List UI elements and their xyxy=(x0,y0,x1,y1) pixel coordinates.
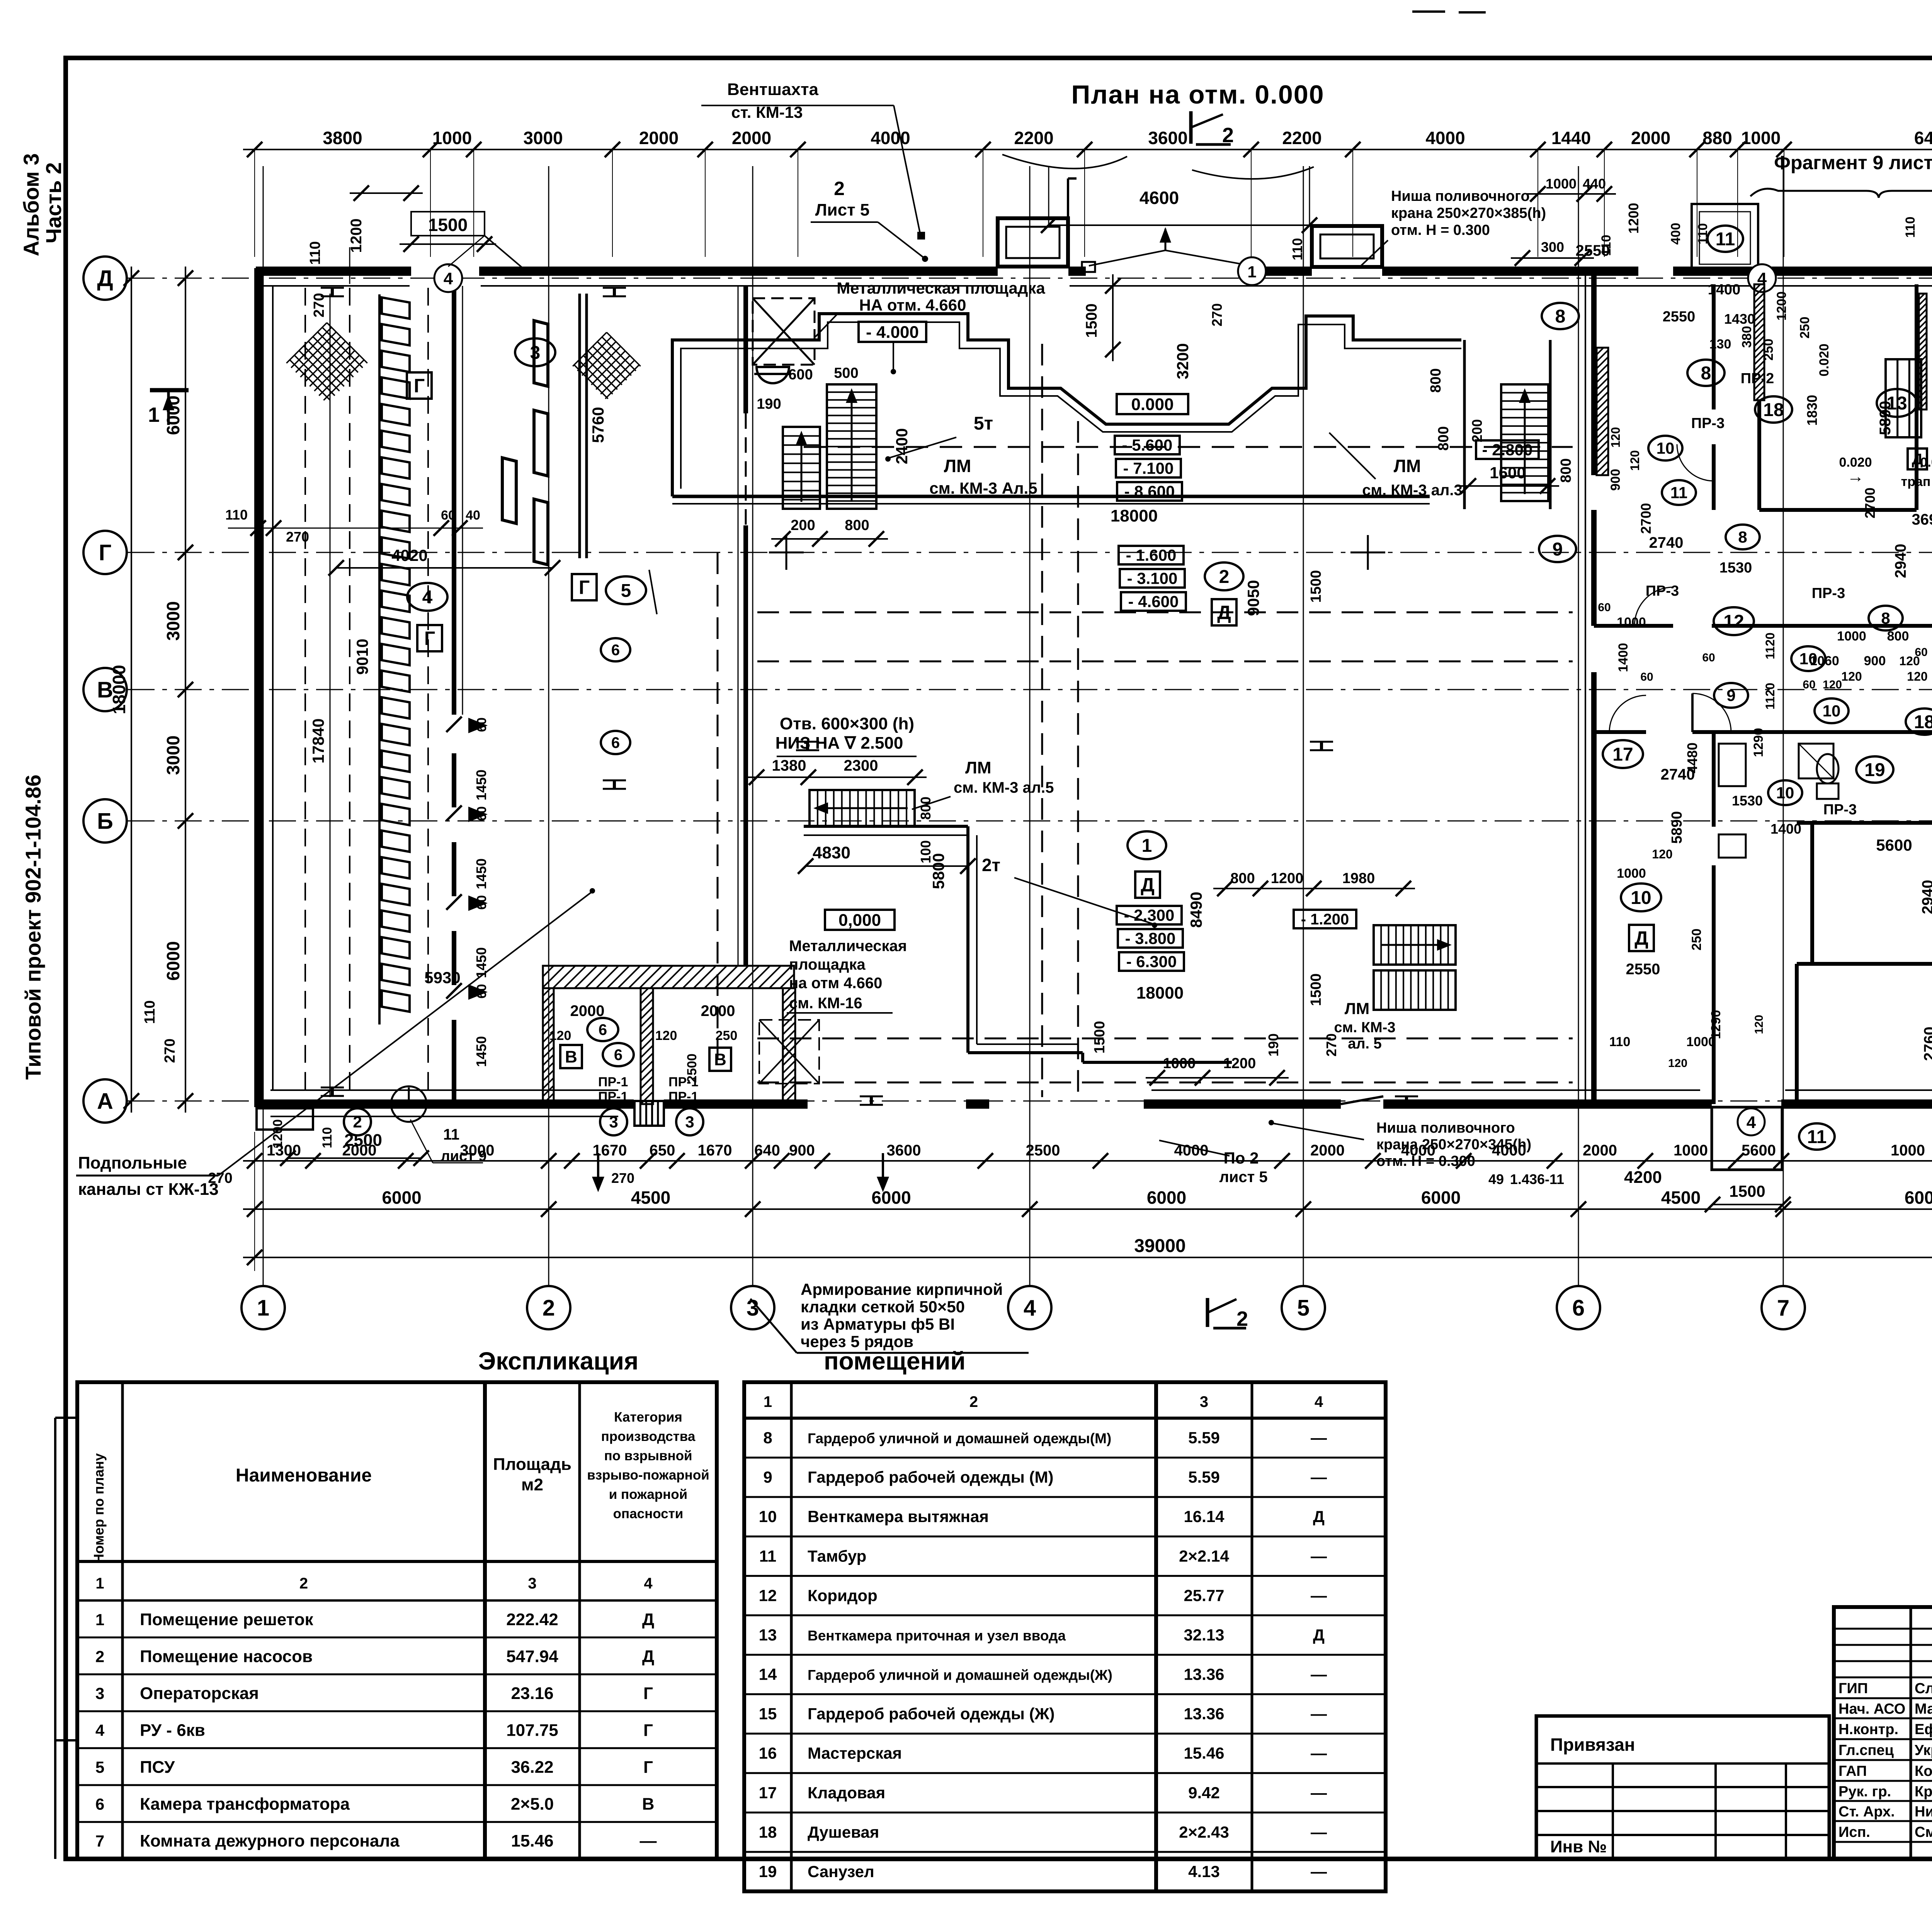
svg-text:49: 49 xyxy=(1488,1171,1504,1187)
svg-text:Наименование: Наименование xyxy=(236,1465,372,1486)
svg-text:Экспликация: Экспликация xyxy=(478,1347,639,1375)
svg-text:Слегин: Слегин xyxy=(1915,1680,1932,1697)
svg-text:200: 200 xyxy=(1469,419,1485,442)
svg-text:2500: 2500 xyxy=(344,1131,382,1150)
svg-text:1: 1 xyxy=(1142,836,1152,856)
svg-text:6000: 6000 xyxy=(163,941,183,980)
transformer chamber walls hatched xyxy=(543,966,794,988)
svg-text:110: 110 xyxy=(1289,238,1305,260)
top local dims 1500 opening xyxy=(411,212,485,236)
svg-text:8: 8 xyxy=(1881,609,1890,627)
bottom-right stair xyxy=(1374,925,1456,965)
svg-text:5.59: 5.59 xyxy=(1188,1468,1220,1486)
svg-text:1000: 1000 xyxy=(1617,866,1646,881)
svg-text:120: 120 xyxy=(1628,450,1642,471)
svg-text:3000: 3000 xyxy=(163,736,183,775)
svg-text:1000: 1000 xyxy=(432,128,472,148)
right block main vertical wall axis6 xyxy=(1591,271,1597,475)
svg-text:1060: 1060 xyxy=(1810,654,1839,668)
svg-text:3: 3 xyxy=(685,1113,694,1131)
svg-text:110: 110 xyxy=(1609,1035,1631,1049)
svg-text:2000: 2000 xyxy=(1310,1142,1345,1159)
svg-text:60: 60 xyxy=(1598,601,1611,614)
svg-text:1450: 1450 xyxy=(473,770,489,800)
svg-text:1: 1 xyxy=(764,1393,772,1410)
svg-text:Д: Д xyxy=(1634,928,1648,949)
svg-text:300: 300 xyxy=(1541,239,1564,255)
svg-text:Помещение решеток: Помещение решеток xyxy=(140,1610,314,1629)
svg-text:250: 250 xyxy=(716,1028,738,1043)
svg-text:отм. Н = 0.300: отм. Н = 0.300 xyxy=(1376,1153,1475,1169)
svg-text:ПР-1: ПР-1 xyxy=(598,1075,628,1089)
svg-text:см. КМ-16: см. КМ-16 xyxy=(789,995,862,1012)
svg-text:18: 18 xyxy=(759,1823,777,1841)
svg-text:16.14: 16.14 xyxy=(1184,1507,1225,1526)
lower pit walls xyxy=(966,826,969,1053)
svg-text:10: 10 xyxy=(1656,439,1675,457)
svg-text:270: 270 xyxy=(286,529,309,545)
svg-text:39000: 39000 xyxy=(1134,1236,1185,1256)
svg-text:- 6.300: - 6.300 xyxy=(1126,953,1177,971)
svg-text:Тамбур: Тамбур xyxy=(808,1547,866,1565)
svg-text:1980: 1980 xyxy=(1342,870,1375,887)
lower platform X square xyxy=(759,1020,819,1084)
level -4.000 xyxy=(859,322,926,342)
section mark 2 top xyxy=(1189,111,1193,144)
svg-text:9010: 9010 xyxy=(353,639,371,674)
svg-text:270: 270 xyxy=(162,1038,178,1063)
svg-text:4020: 4020 xyxy=(391,546,427,564)
svg-text:900: 900 xyxy=(789,1142,815,1159)
svg-text:800: 800 xyxy=(918,797,934,820)
svg-text:—: — xyxy=(1311,1429,1327,1447)
svg-text:Армирование кирпичной: Армирование кирпичной xyxy=(801,1280,1003,1298)
svg-text:120: 120 xyxy=(1907,669,1927,683)
svg-text:110: 110 xyxy=(320,1127,335,1148)
svg-text:1500: 1500 xyxy=(1729,1182,1765,1200)
exterior wall left xyxy=(254,268,264,1107)
svg-text:1400: 1400 xyxy=(1708,282,1741,298)
svg-text:250: 250 xyxy=(1798,317,1812,339)
svg-text:1530: 1530 xyxy=(1719,560,1752,576)
svg-text:План на отм. 0.000: План на отм. 0.000 xyxy=(1071,80,1324,109)
exterior wall top xyxy=(256,267,411,276)
svg-text:Г: Г xyxy=(579,577,590,598)
svg-text:2700: 2700 xyxy=(1638,503,1654,534)
svg-text:2500: 2500 xyxy=(1026,1142,1060,1159)
svg-text:Камера трансформатора: Камера трансформатора xyxy=(140,1795,350,1814)
svg-text:3600: 3600 xyxy=(1148,128,1187,148)
svg-text:Исп.: Исп. xyxy=(1838,1824,1870,1840)
svg-text:11: 11 xyxy=(1670,484,1687,502)
svg-text:800: 800 xyxy=(845,517,869,533)
svg-text:2940: 2940 xyxy=(1919,880,1932,914)
svg-text:5890: 5890 xyxy=(1669,811,1685,844)
svg-text:Металлическая площадка: Металлическая площадка xyxy=(837,279,1045,297)
svg-text:4000: 4000 xyxy=(1425,128,1465,148)
svg-text:15.46: 15.46 xyxy=(1184,1744,1224,1762)
svg-text:18: 18 xyxy=(1763,400,1784,420)
svg-text:м2: м2 xyxy=(521,1475,543,1494)
crosshatch patches xyxy=(286,323,367,403)
wc fixtures rooms 18/19 xyxy=(1719,744,1746,786)
svg-text:190: 190 xyxy=(1265,1033,1281,1057)
svg-text:Д: Д xyxy=(97,266,113,291)
main stair upper xyxy=(827,384,876,509)
svg-text:120: 120 xyxy=(1652,847,1672,861)
svg-text:800: 800 xyxy=(1230,870,1255,887)
svg-text:Альбом 3: Альбом 3 xyxy=(19,153,43,257)
svg-text:3000: 3000 xyxy=(523,128,563,148)
svg-text:- 1.200: - 1.200 xyxy=(1301,911,1349,928)
svg-text:ПР-1: ПР-1 xyxy=(668,1075,698,1089)
svg-text:Помещение насосов: Помещение насосов xyxy=(140,1647,313,1666)
room labels left block xyxy=(515,338,555,366)
svg-text:—: — xyxy=(640,1831,657,1850)
svg-text:6: 6 xyxy=(95,1795,104,1813)
svg-text:1500: 1500 xyxy=(428,215,468,235)
svg-text:1200: 1200 xyxy=(1271,870,1304,887)
svg-text:270: 270 xyxy=(1209,303,1225,326)
svg-text:5890: 5890 xyxy=(1877,401,1894,435)
svg-text:120: 120 xyxy=(655,1028,677,1043)
bracket left of table xyxy=(54,1418,56,1859)
svg-text:7: 7 xyxy=(95,1832,104,1850)
svg-text:11: 11 xyxy=(759,1547,776,1565)
svg-text:380: 380 xyxy=(1740,326,1754,348)
svg-text:Лист 5: Лист 5 xyxy=(815,200,870,219)
svg-text:ПР-2: ПР-2 xyxy=(1741,370,1774,387)
svg-text:—: — xyxy=(1311,1862,1327,1881)
svg-text:800: 800 xyxy=(1428,368,1444,392)
svg-text:107.75: 107.75 xyxy=(506,1721,558,1740)
svg-text:Венткамера приточная и узел вв: Венткамера приточная и узел ввода xyxy=(808,1628,1066,1643)
svg-text:60: 60 xyxy=(1640,671,1653,683)
svg-text:18000: 18000 xyxy=(1136,984,1184,1002)
title block signature table xyxy=(1834,1607,1932,1859)
svg-text:900: 900 xyxy=(1608,469,1623,491)
svg-text:2000: 2000 xyxy=(639,128,679,148)
circled 6 marks on wall xyxy=(601,638,630,661)
svg-text:4600: 4600 xyxy=(1139,188,1179,208)
svg-text:60: 60 xyxy=(441,508,456,523)
pit outline upper xyxy=(672,314,1461,496)
svg-text:- 2.800: - 2.800 xyxy=(1482,441,1533,459)
svg-text:Категория: Категория xyxy=(614,1410,682,1425)
door arcs right block xyxy=(1634,587,1673,626)
svg-text:2740: 2740 xyxy=(1649,534,1684,551)
svg-text:3800: 3800 xyxy=(323,128,362,148)
svg-text:4500: 4500 xyxy=(631,1188,670,1208)
svg-text:2000: 2000 xyxy=(1631,128,1670,148)
level boxes center xyxy=(1117,394,1188,414)
svg-text:190: 190 xyxy=(757,396,781,412)
svg-text:Г: Г xyxy=(643,1758,653,1777)
dashed lower pit lines xyxy=(757,1038,1573,1040)
svg-text:110: 110 xyxy=(225,507,248,523)
svg-text:5800: 5800 xyxy=(929,853,947,889)
explication table 2 xyxy=(744,1382,1386,1891)
svg-text:12: 12 xyxy=(759,1586,777,1604)
svg-text:по взрывной: по взрывной xyxy=(604,1448,692,1463)
svg-text:Инв №: Инв № xyxy=(1550,1837,1607,1856)
svg-text:1: 1 xyxy=(148,403,160,426)
svg-text:помещений: помещений xyxy=(824,1347,966,1375)
left arrow mark 1 xyxy=(150,388,189,392)
svg-text:2200: 2200 xyxy=(1014,128,1053,148)
svg-text:4: 4 xyxy=(1747,1113,1756,1132)
svg-text:—: — xyxy=(1311,1665,1327,1684)
svg-text:9: 9 xyxy=(1726,686,1735,705)
svg-text:1120: 1120 xyxy=(1763,632,1777,659)
svg-text:1290: 1290 xyxy=(1709,1010,1723,1039)
svg-text:1200: 1200 xyxy=(1774,291,1789,321)
svg-text:Гардероб уличной и домашней од: Гардероб уличной и домашней одежды(М) xyxy=(808,1431,1111,1446)
svg-text:Номер по плану: Номер по плану xyxy=(91,1453,107,1564)
vertical axis lines 1-8 xyxy=(263,166,264,1286)
svg-text:Г: Г xyxy=(643,1684,653,1703)
svg-text:1000: 1000 xyxy=(1617,615,1646,630)
room partitions right xyxy=(1797,821,1932,825)
svg-text:ПР-3: ПР-3 xyxy=(1691,415,1725,432)
svg-text:2: 2 xyxy=(1219,567,1230,587)
svg-text:640: 640 xyxy=(754,1142,780,1159)
svg-text:Привязан: Привязан xyxy=(1550,1735,1635,1755)
svg-text:10: 10 xyxy=(1776,784,1794,802)
svg-text:и пожарной: и пожарной xyxy=(609,1487,687,1502)
svg-text:2200: 2200 xyxy=(1282,128,1321,148)
svg-text:1450: 1450 xyxy=(473,858,489,889)
svg-text:9.42: 9.42 xyxy=(1188,1784,1220,1802)
svg-text:4.13: 4.13 xyxy=(1188,1862,1220,1881)
svg-text:ГАП: ГАП xyxy=(1838,1763,1867,1779)
svg-text:5: 5 xyxy=(621,581,631,601)
svg-text:Укропова: Укропова xyxy=(1915,1742,1932,1758)
right block partition x4435 xyxy=(1712,284,1716,409)
svg-text:ПР-3: ПР-3 xyxy=(1823,802,1857,818)
svg-text:6000: 6000 xyxy=(382,1188,421,1208)
svg-text:10: 10 xyxy=(1631,888,1651,908)
niche rect top right with mark 11 xyxy=(1692,204,1758,272)
svg-text:1000: 1000 xyxy=(1673,1142,1708,1159)
svg-text:Мастерская: Мастерская xyxy=(808,1744,902,1762)
down arrows doors xyxy=(597,1153,599,1188)
svg-text:0,000: 0,000 xyxy=(838,911,881,929)
svg-text:1000: 1000 xyxy=(1741,128,1781,148)
svg-text:ПР-1: ПР-1 xyxy=(668,1089,698,1104)
svg-text:2: 2 xyxy=(543,1295,555,1320)
svg-text:8: 8 xyxy=(763,1429,772,1447)
svg-text:Костин: Костин xyxy=(1915,1763,1932,1779)
svg-text:1400: 1400 xyxy=(1770,821,1801,837)
svg-text:200: 200 xyxy=(791,517,815,533)
svg-text:600: 600 xyxy=(788,367,813,383)
svg-text:1: 1 xyxy=(257,1295,269,1320)
svg-text:11: 11 xyxy=(1807,1127,1827,1147)
svg-text:Коридор: Коридор xyxy=(808,1586,878,1604)
svg-text:6000: 6000 xyxy=(1905,1188,1932,1208)
svg-text:Венткамера вытяжная: Венткамера вытяжная xyxy=(808,1507,989,1526)
dashed pit lines xyxy=(757,612,1573,613)
corridor walls xyxy=(1594,624,1673,628)
svg-text:1120: 1120 xyxy=(1763,683,1777,709)
svg-text:3: 3 xyxy=(609,1113,618,1131)
svg-text:10: 10 xyxy=(1823,702,1841,720)
svg-text:2: 2 xyxy=(353,1113,362,1131)
svg-text:2×2.14: 2×2.14 xyxy=(1179,1547,1229,1565)
svg-text:6: 6 xyxy=(1572,1295,1585,1320)
svg-text:18000: 18000 xyxy=(109,665,129,714)
upper right partitions xyxy=(1759,508,1917,512)
left block dashed lines xyxy=(304,288,306,1097)
svg-text:Часть 2: Часть 2 xyxy=(41,162,66,243)
svg-text:2550: 2550 xyxy=(1576,242,1610,259)
svg-text:5: 5 xyxy=(95,1758,104,1776)
svg-text:ЛМ: ЛМ xyxy=(1345,999,1369,1018)
svg-text:→: → xyxy=(1847,467,1864,486)
dims 800 1200 1980 xyxy=(1213,888,1415,889)
room 4 label xyxy=(407,583,447,611)
svg-text:110: 110 xyxy=(307,241,323,265)
svg-text:В: В xyxy=(714,1050,726,1069)
svg-text:5760: 5760 xyxy=(589,407,607,443)
svg-text:Площадь: Площадь xyxy=(493,1455,571,1474)
svg-text:1400: 1400 xyxy=(1616,643,1631,672)
svg-text:19: 19 xyxy=(1864,760,1885,780)
svg-text:Д: Д xyxy=(1912,451,1923,468)
svg-text:270: 270 xyxy=(611,1170,634,1186)
lower platform 0.000 box xyxy=(825,910,895,930)
svg-text:Ниша поливочного: Ниша поливочного xyxy=(1391,188,1530,204)
svg-text:1670: 1670 xyxy=(698,1142,732,1159)
svg-text:2: 2 xyxy=(299,1575,308,1592)
svg-text:36.22: 36.22 xyxy=(511,1758,553,1777)
svg-text:4: 4 xyxy=(422,587,433,608)
svg-text:6000: 6000 xyxy=(1421,1188,1461,1208)
svg-text:- 7.100: - 7.100 xyxy=(1123,459,1174,477)
svg-text:2000: 2000 xyxy=(1583,1142,1617,1159)
svg-text:6000: 6000 xyxy=(1147,1188,1186,1208)
svg-text:Г: Г xyxy=(414,375,425,397)
svg-text:кладки сеткой 50×50: кладки сеткой 50×50 xyxy=(801,1298,965,1316)
svg-text:4: 4 xyxy=(644,1575,653,1592)
svg-text:Фрагмент 9 лист 4: Фрагмент 9 лист 4 xyxy=(1774,152,1932,173)
svg-text:3: 3 xyxy=(1200,1393,1208,1410)
svg-text:- 4.000: - 4.000 xyxy=(866,323,919,341)
svg-text:см. КМ-3 ал.3: см. КМ-3 ал.3 xyxy=(1362,482,1463,499)
svg-text:опасности: опасности xyxy=(613,1506,684,1521)
svg-text:40: 40 xyxy=(466,508,480,523)
svg-text:Гл.спец: Гл.спец xyxy=(1838,1742,1894,1758)
door circles 3 xyxy=(600,1108,627,1135)
axis3 interior wall xyxy=(743,286,748,413)
svg-text:5т: 5т xyxy=(974,413,993,434)
svg-text:- 4.600: - 4.600 xyxy=(1128,593,1179,611)
svg-text:Отв. 600×300 (h): Отв. 600×300 (h) xyxy=(780,714,914,733)
svg-text:2: 2 xyxy=(95,1647,104,1665)
svg-text:Г: Г xyxy=(643,1721,653,1740)
svg-text:5930: 5930 xyxy=(424,968,460,987)
svg-text:- 1.600: - 1.600 xyxy=(1126,546,1177,564)
svg-text:1380: 1380 xyxy=(772,757,806,774)
dims above right block xyxy=(1526,193,1616,195)
svg-text:1000: 1000 xyxy=(1837,629,1866,644)
svg-text:—: — xyxy=(1311,1547,1327,1565)
svg-text:120: 120 xyxy=(1823,678,1842,691)
exterior wall bottom xyxy=(256,1099,634,1109)
svg-text:Никольская: Никольская xyxy=(1915,1804,1932,1820)
svg-text:Комната дежурного персонала: Комната дежурного персонала xyxy=(140,1831,400,1850)
svg-text:60: 60 xyxy=(1702,651,1715,664)
svg-text:Гардероб рабочей одежды (Ж): Гардероб рабочей одежды (Ж) xyxy=(808,1705,1054,1723)
svg-text:120: 120 xyxy=(1753,1015,1765,1034)
svg-text:1600: 1600 xyxy=(1490,464,1526,482)
svg-text:16: 16 xyxy=(759,1744,777,1762)
svg-text:3000: 3000 xyxy=(163,601,183,641)
svg-text:8: 8 xyxy=(1701,363,1711,384)
door mark 4 on top wall xyxy=(434,264,462,292)
stair shaft top right xyxy=(1915,284,1918,510)
svg-text:4500: 4500 xyxy=(1661,1188,1701,1208)
svg-text:—: — xyxy=(1311,1744,1327,1762)
svg-text:6: 6 xyxy=(611,642,620,659)
svg-text:12: 12 xyxy=(1723,612,1744,632)
top dimension chain xyxy=(243,149,1932,150)
interior wall left block xyxy=(452,286,456,715)
svg-text:13: 13 xyxy=(759,1626,777,1644)
svg-text:4: 4 xyxy=(95,1721,105,1740)
svg-text:1500: 1500 xyxy=(1308,570,1324,603)
svg-text:120: 120 xyxy=(549,1028,571,1043)
svg-text:1000: 1000 xyxy=(1163,1055,1196,1072)
svg-text:6: 6 xyxy=(599,1021,607,1038)
svg-text:1530: 1530 xyxy=(1732,793,1763,809)
svg-text:2940: 2940 xyxy=(1892,544,1909,578)
svg-text:4480: 4480 xyxy=(1684,742,1700,773)
boxed letters right xyxy=(1629,925,1654,951)
svg-text:5600: 5600 xyxy=(1742,1142,1776,1159)
svg-text:2: 2 xyxy=(834,178,845,199)
mid block lines xyxy=(578,294,581,558)
svg-text:1200: 1200 xyxy=(1223,1055,1256,1072)
svg-text:0.020: 0.020 xyxy=(1817,343,1832,376)
svg-text:440: 440 xyxy=(1583,176,1606,192)
svg-text:Ст. Арх.: Ст. Арх. xyxy=(1838,1804,1895,1820)
svg-text:В: В xyxy=(642,1795,655,1814)
svg-text:Гардероб рабочей одежды (М): Гардероб рабочей одежды (М) xyxy=(808,1468,1053,1486)
svg-text:ЛМ: ЛМ xyxy=(1394,456,1421,476)
dim row 110/270/60/40 xyxy=(228,528,483,529)
svg-text:лист 5: лист 5 xyxy=(1219,1169,1267,1186)
svg-text:крана 250×270×385(h): крана 250×270×385(h) xyxy=(1391,205,1546,221)
svg-text:130: 130 xyxy=(1709,337,1731,352)
svg-text:4: 4 xyxy=(1024,1295,1036,1320)
svg-text:2760: 2760 xyxy=(1921,1027,1932,1061)
svg-text:Манкаускас: Манкаускас xyxy=(1915,1701,1932,1717)
left dimension chains xyxy=(185,267,186,1113)
svg-text:2×2.43: 2×2.43 xyxy=(1179,1823,1229,1841)
svg-text:РУ - 6кв: РУ - 6кв xyxy=(140,1721,205,1740)
svg-text:ЛМ: ЛМ xyxy=(944,456,971,476)
svg-text:Ниша поливочного: Ниша поливочного xyxy=(1376,1120,1515,1136)
svg-text:3: 3 xyxy=(530,343,541,363)
svg-text:15.46: 15.46 xyxy=(511,1831,553,1850)
svg-text:23.16: 23.16 xyxy=(511,1684,553,1703)
svg-text:6: 6 xyxy=(614,1047,622,1064)
svg-text:15: 15 xyxy=(759,1705,777,1723)
svg-text:1500: 1500 xyxy=(1308,973,1324,1006)
svg-text:9: 9 xyxy=(763,1468,772,1486)
